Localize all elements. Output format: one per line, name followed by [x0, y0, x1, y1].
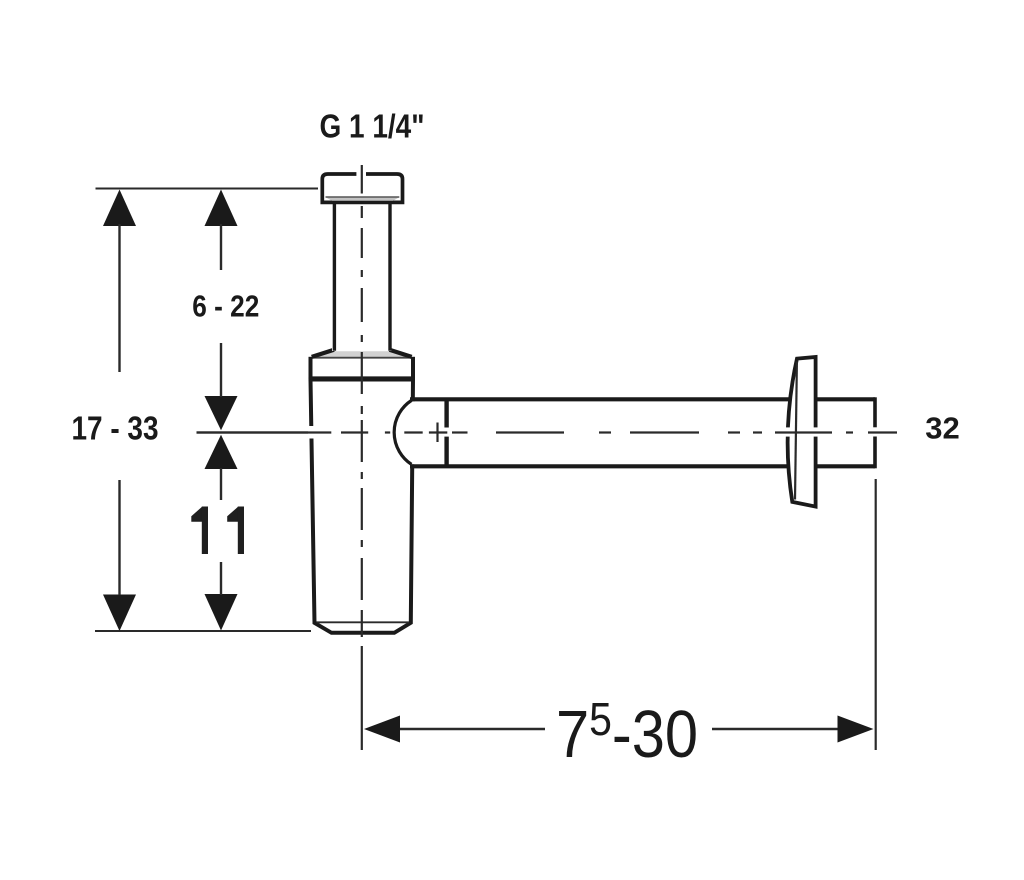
- svg-text:17 - 33: 17 - 33: [72, 410, 159, 447]
- svg-text:6 - 22: 6 - 22: [192, 289, 259, 324]
- svg-text:75-30: 75-30: [556, 695, 698, 772]
- svg-text:G 1 1/4": G 1 1/4": [320, 108, 425, 145]
- svg-text:32: 32: [925, 411, 959, 446]
